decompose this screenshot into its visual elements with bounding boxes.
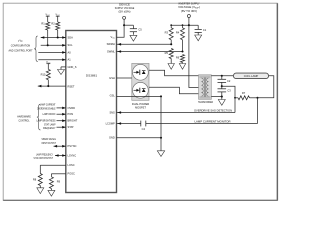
svg-text:(8V TO 30V): (8V TO 30V) bbox=[181, 9, 197, 13]
resistor R1 bbox=[41, 16, 49, 45]
node R7 right junction bbox=[256, 97, 258, 99]
svg-text:LOSC: LOSC bbox=[68, 163, 75, 167]
node R7 left tap bbox=[234, 97, 236, 99]
svg-text:CONTROL: CONTROL bbox=[19, 119, 30, 123]
svg-text:GND: GND bbox=[109, 136, 115, 140]
wire SWML bbox=[117, 51, 183, 53]
wire LSYNC bidirectional bbox=[55, 155, 66, 157]
svg-text:SNS: SNS bbox=[109, 110, 115, 114]
resistor R5 bbox=[165, 49, 174, 64]
svg-text:C4: C4 bbox=[142, 127, 146, 131]
svg-text:C2: C2 bbox=[227, 79, 231, 83]
svg-text:FREQUENCY: FREQUENCY bbox=[43, 126, 56, 130]
chip left pin labels bbox=[68, 35, 78, 175]
svg-text:MOSFET: MOSFET bbox=[135, 105, 146, 109]
svg-text:LAMP ON/OFF: LAMP ON/OFF bbox=[43, 112, 56, 116]
wire VCC supply bbox=[117, 19, 125, 37]
ground GND_S bbox=[58, 70, 65, 75]
node lamp-C2 junction bbox=[221, 75, 223, 77]
dual power MOSFET box bbox=[132, 63, 149, 100]
wire secondary bottom bbox=[211, 96, 222, 98]
svg-text:R5: R5 bbox=[165, 51, 169, 55]
wire upper drain bbox=[149, 70, 199, 76]
svg-text:GSL: GSL bbox=[110, 94, 116, 98]
svg-text:R6: R6 bbox=[176, 56, 180, 60]
svg-text:AND CONTROL PORT: AND CONTROL PORT bbox=[9, 49, 33, 53]
node source junction bbox=[160, 95, 162, 97]
svg-text:R9: R9 bbox=[57, 179, 61, 183]
node SWML junction bbox=[181, 50, 183, 52]
resistor R4 bbox=[176, 25, 185, 51]
wire to C5 bbox=[124, 24, 133, 26]
wire VSUP rail bbox=[171, 24, 198, 26]
chip right pin labels bbox=[106, 35, 116, 140]
capacitor C5 bbox=[130, 28, 137, 30]
svg-text:PON: PON bbox=[68, 112, 74, 116]
brace I2C group bbox=[34, 36, 38, 62]
node C2-C3 junction bbox=[221, 85, 223, 87]
node GND junction bbox=[160, 137, 162, 139]
ground C1 bbox=[195, 35, 202, 41]
terminal device supply bbox=[123, 16, 126, 19]
capacitor C1 bbox=[197, 25, 199, 29]
wire POSC bbox=[51, 173, 65, 175]
resistor R8 bbox=[33, 174, 42, 188]
node secondary-low junction bbox=[221, 96, 223, 98]
node VCC branch bbox=[123, 24, 125, 26]
wire A1 bbox=[38, 59, 66, 61]
wire PON bbox=[57, 113, 66, 115]
svg-text:SDA: SDA bbox=[68, 35, 74, 39]
svg-text:DUAL POWER: DUAL POWER bbox=[132, 102, 149, 106]
wire LCOMP bbox=[117, 123, 141, 125]
resistor R6 bbox=[176, 55, 185, 64]
label lamp frequency sync bbox=[34, 153, 54, 161]
svg-text:(5V ±5%): (5V ±5%) bbox=[118, 10, 130, 14]
wire GND bbox=[117, 137, 162, 139]
svg-text:OVRD: OVRD bbox=[68, 106, 76, 110]
resistor R3 bbox=[165, 25, 174, 44]
IC U1 DS3881 controller bbox=[66, 31, 117, 193]
svg-text:GND_S: GND_S bbox=[68, 65, 77, 69]
wire lower drain bbox=[149, 87, 199, 94]
ground R9 bbox=[48, 190, 55, 196]
svg-text:R8: R8 bbox=[33, 178, 37, 182]
node R2-SDA junction bbox=[57, 36, 59, 38]
svg-text:R3: R3 bbox=[165, 31, 169, 35]
svg-text:STAT: STAT bbox=[68, 125, 75, 129]
capacitor C2 bbox=[221, 76, 223, 80]
wire source to ground vertical bbox=[160, 96, 162, 137]
wire GSH bbox=[117, 77, 132, 79]
transistor Q1 bbox=[133, 64, 149, 80]
wire secondary top to lamp bbox=[211, 75, 233, 77]
CCFL lamp bbox=[233, 73, 268, 79]
svg-text:INPUT/OUTPUT: INPUT/OUTPUT bbox=[42, 141, 57, 145]
svg-text:SCL: SCL bbox=[68, 43, 74, 47]
resistor R2 bbox=[51, 16, 59, 37]
wire divider tap to sense vertical bbox=[222, 86, 235, 112]
wire lamp current monitor bbox=[146, 123, 258, 125]
svg-text:R4: R4 bbox=[176, 31, 180, 35]
terminal inverter supply bbox=[187, 15, 190, 18]
ground C5 bbox=[130, 35, 137, 41]
svg-text:OVERDRIVE ENABLE: OVERDRIVE ENABLE bbox=[37, 106, 56, 110]
ground R8 bbox=[37, 188, 44, 194]
svg-text:OVERDRIVE SAG DETECTION: OVERDRIVE SAG DETECTION bbox=[194, 108, 232, 112]
svg-text:LAMP CURRENT MONITOR: LAMP CURRENT MONITOR bbox=[195, 119, 231, 123]
svg-text:R10: R10 bbox=[41, 73, 46, 77]
ground secondary bbox=[221, 97, 223, 100]
svg-text:POSC: POSC bbox=[68, 172, 75, 176]
svg-text:C1: C1 bbox=[203, 28, 207, 32]
svg-text:CONFIGURATION: CONFIGURATION bbox=[11, 44, 31, 48]
frame border bbox=[3, 3, 277, 200]
wire SNS overdrive sag detection bbox=[117, 112, 236, 114]
label spark signal bbox=[42, 137, 57, 145]
svg-text:SWMH: SWMH bbox=[107, 42, 115, 46]
wire SWMH bbox=[117, 43, 172, 45]
wire SCL bbox=[41, 44, 66, 46]
node R1-SCL junction bbox=[47, 44, 49, 46]
wire BRIGHT bbox=[57, 120, 66, 122]
ground main bbox=[160, 138, 162, 151]
wire lamp current monitor vertical bbox=[257, 98, 259, 124]
node rail junctions bbox=[188, 24, 190, 26]
wire SDA bbox=[41, 37, 66, 39]
transformer T1 bbox=[199, 75, 212, 100]
svg-text:BRIGHT: BRIGHT bbox=[68, 119, 78, 123]
svg-text:R2: R2 bbox=[51, 21, 55, 25]
wire VSUP vertical to transformer center tap bbox=[189, 18, 199, 88]
svg-text:DS3881: DS3881 bbox=[86, 74, 97, 78]
node SWMH junction bbox=[170, 43, 172, 45]
label hardware control rows bbox=[37, 103, 56, 130]
svg-text:CCFL LAMP: CCFL LAMP bbox=[244, 74, 259, 78]
svg-text:LSYNC: LSYNC bbox=[68, 153, 77, 157]
wire lamp return bbox=[258, 76, 274, 98]
svg-text:SWML: SWML bbox=[107, 49, 115, 53]
wire GSL / source bbox=[117, 95, 162, 97]
svg-text:C5: C5 bbox=[138, 27, 142, 31]
svg-text:C3: C3 bbox=[227, 89, 231, 93]
wire PSYNC bidirectional bbox=[54, 145, 66, 147]
gate arrow R5 bbox=[168, 64, 174, 70]
wire STAT bbox=[57, 126, 66, 128]
resistor R10 bbox=[41, 64, 51, 86]
svg-text:TRANSFORMER: TRANSFORMER bbox=[198, 100, 213, 104]
resistor R7 bbox=[235, 91, 258, 100]
svg-text:LCOMP: LCOMP bbox=[106, 121, 115, 125]
svg-text:RSET: RSET bbox=[68, 85, 75, 89]
svg-text:R7: R7 bbox=[242, 91, 246, 95]
svg-text:A0: A0 bbox=[68, 50, 72, 54]
svg-text:GSH: GSH bbox=[109, 76, 115, 80]
wire OVRD bbox=[57, 107, 66, 109]
wire RSET with left arrow bbox=[38, 85, 66, 87]
svg-text:A1: A1 bbox=[68, 58, 72, 62]
capacitor C4 bbox=[140, 121, 142, 127]
capacitor C3 bbox=[221, 86, 223, 89]
transistor Q2 bbox=[133, 82, 149, 98]
wire A0 bbox=[38, 51, 66, 53]
svg-text:SYNC INPUT/OUTPUT: SYNC INPUT/OUTPUT bbox=[34, 156, 54, 160]
wire GND_S bbox=[61, 66, 66, 68]
brace hardware control bbox=[37, 104, 41, 130]
resistor R9 bbox=[49, 177, 60, 191]
svg-text:R1: R1 bbox=[41, 21, 45, 25]
node RSET junction bbox=[47, 85, 49, 87]
svg-text:PSYNC: PSYNC bbox=[68, 144, 77, 148]
wire LOSC bbox=[40, 164, 66, 166]
gate arrow R6 bbox=[179, 64, 185, 70]
